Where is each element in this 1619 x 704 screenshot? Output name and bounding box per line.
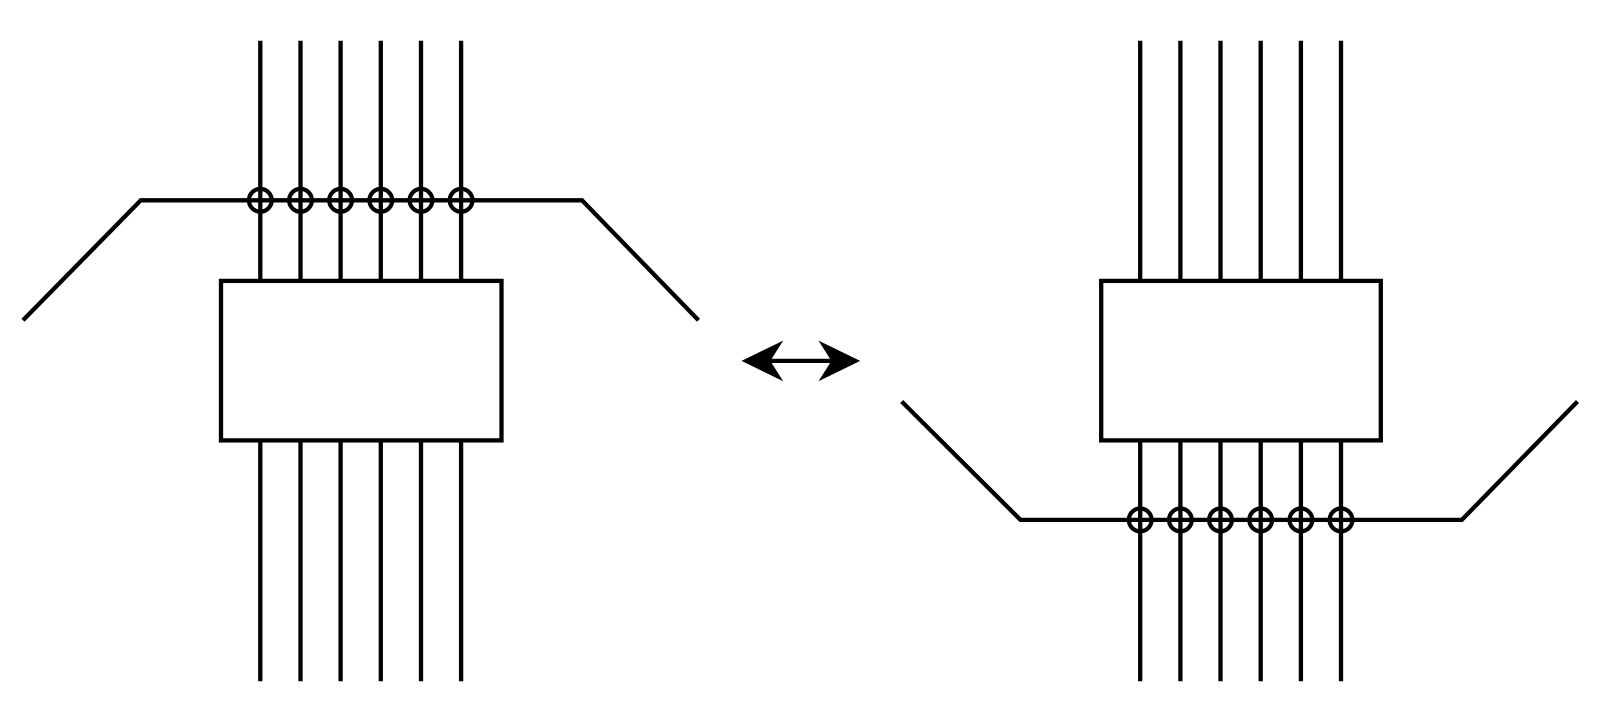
right strand 5 xyxy=(1299,41,1303,682)
left strand 2 xyxy=(298,41,302,682)
right crossing node 3 xyxy=(1209,509,1232,532)
right strand 3 xyxy=(1218,41,1222,682)
equivalence arrow shaft xyxy=(762,359,840,363)
equivalence arrow left head xyxy=(742,341,784,382)
left crossing node 4 xyxy=(369,189,392,212)
left strand 1 xyxy=(258,41,262,682)
right strand 1 xyxy=(1138,41,1142,682)
left strand 4 xyxy=(379,41,383,682)
left strand 6 xyxy=(459,41,463,682)
left box U1 xyxy=(221,281,502,441)
left crossing node 1 xyxy=(249,189,272,212)
right crossing node 4 xyxy=(1249,509,1272,532)
right crossing wire xyxy=(902,402,1578,520)
left crossing node 6 xyxy=(450,189,473,212)
right strand 4 xyxy=(1259,41,1263,682)
equivalence arrow right head xyxy=(819,341,861,382)
right crossing node 6 xyxy=(1330,509,1353,532)
left strand 5 xyxy=(419,41,423,682)
right strand 6 xyxy=(1339,41,1343,682)
left strand 3 xyxy=(338,41,342,682)
right box U2 xyxy=(1101,281,1381,441)
left crossing wire xyxy=(23,200,699,320)
right crossing node 5 xyxy=(1290,509,1313,532)
right crossing node 2 xyxy=(1169,509,1192,532)
right strand 2 xyxy=(1178,41,1182,682)
right crossing node 1 xyxy=(1129,509,1152,532)
left crossing node 2 xyxy=(289,189,312,212)
left crossing node 3 xyxy=(329,189,352,212)
left crossing node 5 xyxy=(410,189,433,212)
